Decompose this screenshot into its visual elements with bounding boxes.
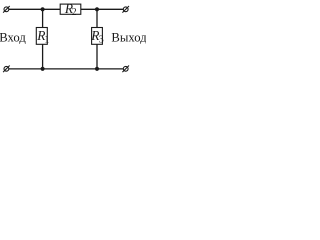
resistor R1 body [36,28,47,45]
wire top-left [9,8,60,10]
terminal output bottom [122,66,129,73]
svg-text:2: 2 [72,7,77,18]
label R3 [90,28,104,45]
terminal input bottom [3,66,10,73]
wire bottom [9,68,123,70]
node junction top-left [41,7,45,11]
wire R1 bottom stub [42,44,44,69]
terminal input top [3,6,10,13]
svg-text:Вход: Вход [0,31,26,45]
wire top-right [81,8,123,10]
wire R3 top stub [96,9,98,27]
wire R3 bottom stub [96,44,98,69]
node junction bottom-right [95,67,99,71]
resistor R3 body [92,28,103,45]
resistor R2 body [60,4,81,14]
svg-text:Выход: Выход [111,31,146,45]
svg-text:1: 1 [44,34,49,45]
node junction top-right [95,7,99,11]
label R2 [64,1,77,18]
svg-text:3: 3 [99,34,104,45]
label R1 [36,28,49,45]
node junction bottom-left [41,67,45,71]
terminal output top [122,6,129,13]
wire R1 top stub [42,9,44,27]
